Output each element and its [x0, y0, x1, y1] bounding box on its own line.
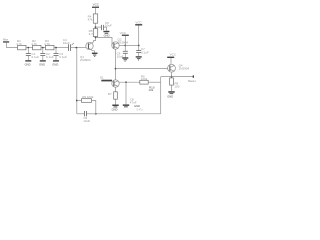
svg-text:VCC: VCC: [135, 20, 142, 24]
wire C4 to Q1 base: [71, 47, 86, 49]
svg-text:GND: GND: [39, 63, 45, 67]
transistor Q1: [80, 42, 93, 62]
node Q3 base dot: [125, 81, 127, 83]
power VCC for Q2: [120, 31, 129, 36]
transistor Q3: [112, 80, 119, 87]
wire input stem and lead to R1: [7, 43, 18, 48]
svg-text:4.7k: 4.7k: [89, 32, 95, 36]
wire VCC stem to node: [124, 36, 126, 46]
node Vin input port label: [3, 38, 9, 43]
node emitter junction dot: [115, 68, 117, 70]
wire Q4 emitter down: [171, 72, 173, 77]
ground for C5: [103, 31, 109, 38]
transistor Q4: [168, 64, 190, 73]
node VCC Q2 dot: [124, 45, 126, 47]
svg-text:GND: GND: [167, 95, 173, 99]
svg-text:47uF: 47uF: [130, 101, 137, 105]
ground for C6: [122, 57, 128, 61]
svg-text:0.1uF: 0.1uF: [59, 55, 67, 59]
transistor Q2: [112, 37, 129, 49]
svg-text:R7: R7: [108, 92, 112, 96]
wire collector rail to Q2: [96, 37, 114, 45]
wire R6 to feedback riser: [148, 81, 161, 83]
node loop left dot: [76, 100, 78, 102]
wire output: [172, 76, 194, 78]
resistor R3: [44, 39, 54, 50]
capacitor C9 feedback: [77, 111, 96, 123]
ground for C8: [123, 104, 143, 111]
svg-text:4.7k: 4.7k: [16, 42, 22, 46]
diode D1 bias bar: [100, 76, 112, 82]
wire rail to second VCC: [125, 45, 138, 47]
node loop right dot: [95, 113, 97, 115]
wire VCC2 stem: [138, 26, 140, 46]
svg-text:10uF: 10uF: [63, 41, 70, 45]
wire R3 to C4: [54, 47, 68, 49]
wire Q3 emitter: [115, 87, 117, 92]
capacitor C1 shunt: [26, 48, 40, 61]
node decouple dot: [95, 26, 97, 28]
svg-text:47k: 47k: [88, 18, 93, 22]
wire C5 to ground: [104, 27, 107, 31]
resistor R2: [31, 39, 41, 50]
svg-text:GND: GND: [112, 108, 118, 112]
wire Q3 base right: [119, 81, 140, 83]
svg-text:R9 100k: R9 100k: [82, 95, 94, 99]
capacitor C7 bypass: [136, 46, 149, 57]
wire Q1 emitter lead: [93, 51, 95, 53]
power VCC rail top: [92, 3, 100, 8]
resistor R1: [16, 39, 26, 50]
power VCC for Q4: [167, 53, 177, 58]
capacitor C2 shunt: [40, 48, 54, 61]
svg-text:2N3904: 2N3904: [118, 40, 129, 44]
resistor R9 feedback: [77, 95, 96, 114]
ground for R8: [167, 91, 175, 98]
svg-text:VCC: VCC: [170, 53, 177, 57]
resistor R5: [89, 29, 98, 37]
node VCC2 dot: [138, 45, 140, 47]
svg-text:10k: 10k: [148, 88, 153, 92]
wire emitter rail to Q4: [116, 68, 168, 70]
svg-text:0.1uF: 0.1uF: [141, 50, 149, 54]
ground for C3: [52, 60, 59, 66]
wire VCC to R4: [95, 8, 97, 14]
svg-text:2N3904: 2N3904: [179, 67, 190, 71]
resistor R6 bias: [140, 74, 148, 84]
wire R4 to R5: [95, 23, 97, 28]
wire feedback bottom: [96, 113, 161, 115]
wire Q2 collector to VCC node: [119, 45, 125, 47]
wire R5 to collector rail: [95, 36, 97, 39]
wire Q2 emitter down: [115, 49, 117, 80]
wire feedback riser: [76, 48, 78, 114]
wire VCC Q4 stem: [170, 58, 172, 64]
node junction B dot: [42, 47, 44, 49]
svg-text:GND: GND: [104, 33, 110, 37]
power VCC second: [135, 20, 142, 25]
svg-text:0.1uF: 0.1uF: [46, 55, 54, 59]
svg-text:0.1uF: 0.1uF: [32, 55, 40, 59]
svg-text:4.7k: 4.7k: [44, 42, 50, 46]
svg-text:Vin: Vin: [3, 38, 8, 42]
svg-text:0.47u: 0.47u: [137, 108, 144, 111]
wire Q1 collector to node: [93, 37, 96, 42]
ground for R7: [112, 105, 119, 112]
node base junction dot: [76, 47, 78, 49]
wire feedback from output: [161, 76, 172, 78]
svg-text:GND: GND: [52, 63, 58, 67]
node junction A dot: [27, 47, 29, 49]
ground for C2: [39, 60, 46, 66]
svg-text:2N3904: 2N3904: [80, 58, 91, 62]
svg-text:100: 100: [174, 84, 179, 88]
capacitor C6 bypass: [117, 46, 128, 59]
svg-text:10uF: 10uF: [83, 119, 90, 123]
svg-text:4.7k: 4.7k: [31, 42, 37, 46]
node Vout terminal: [188, 75, 196, 83]
resistor R8: [170, 78, 180, 88]
wire R8 to ground: [171, 85, 173, 91]
svg-text:Vout: Vout: [188, 79, 196, 83]
wire R7 to ground: [115, 99, 117, 104]
svg-text:GND: GND: [25, 63, 31, 67]
svg-text:VCC: VCC: [120, 31, 127, 35]
resistor R4: [88, 14, 98, 23]
wire feedback riser right: [148, 77, 160, 114]
svg-text:100k: 100k: [141, 77, 148, 81]
node junction C dot: [55, 47, 57, 49]
svg-text:D1: D1: [100, 76, 104, 80]
wire R1 to R2: [26, 47, 33, 49]
capacitor C5 decoupling: [102, 21, 113, 30]
capacitor C3 shunt: [54, 48, 68, 61]
svg-text:VCC: VCC: [93, 3, 100, 7]
resistor R7: [108, 92, 117, 99]
node collector rail dot: [95, 37, 97, 39]
ground for C1: [25, 60, 32, 66]
wire R2 to R3: [41, 47, 46, 49]
node output junction dot: [171, 76, 173, 78]
capacitor C4 coupling: [63, 38, 74, 51]
ground for C7: [136, 56, 142, 60]
wire to C5: [96, 26, 102, 28]
ground Q1 emitter: [92, 53, 98, 57]
capacitor C8 base bypass wire: [126, 82, 137, 105]
